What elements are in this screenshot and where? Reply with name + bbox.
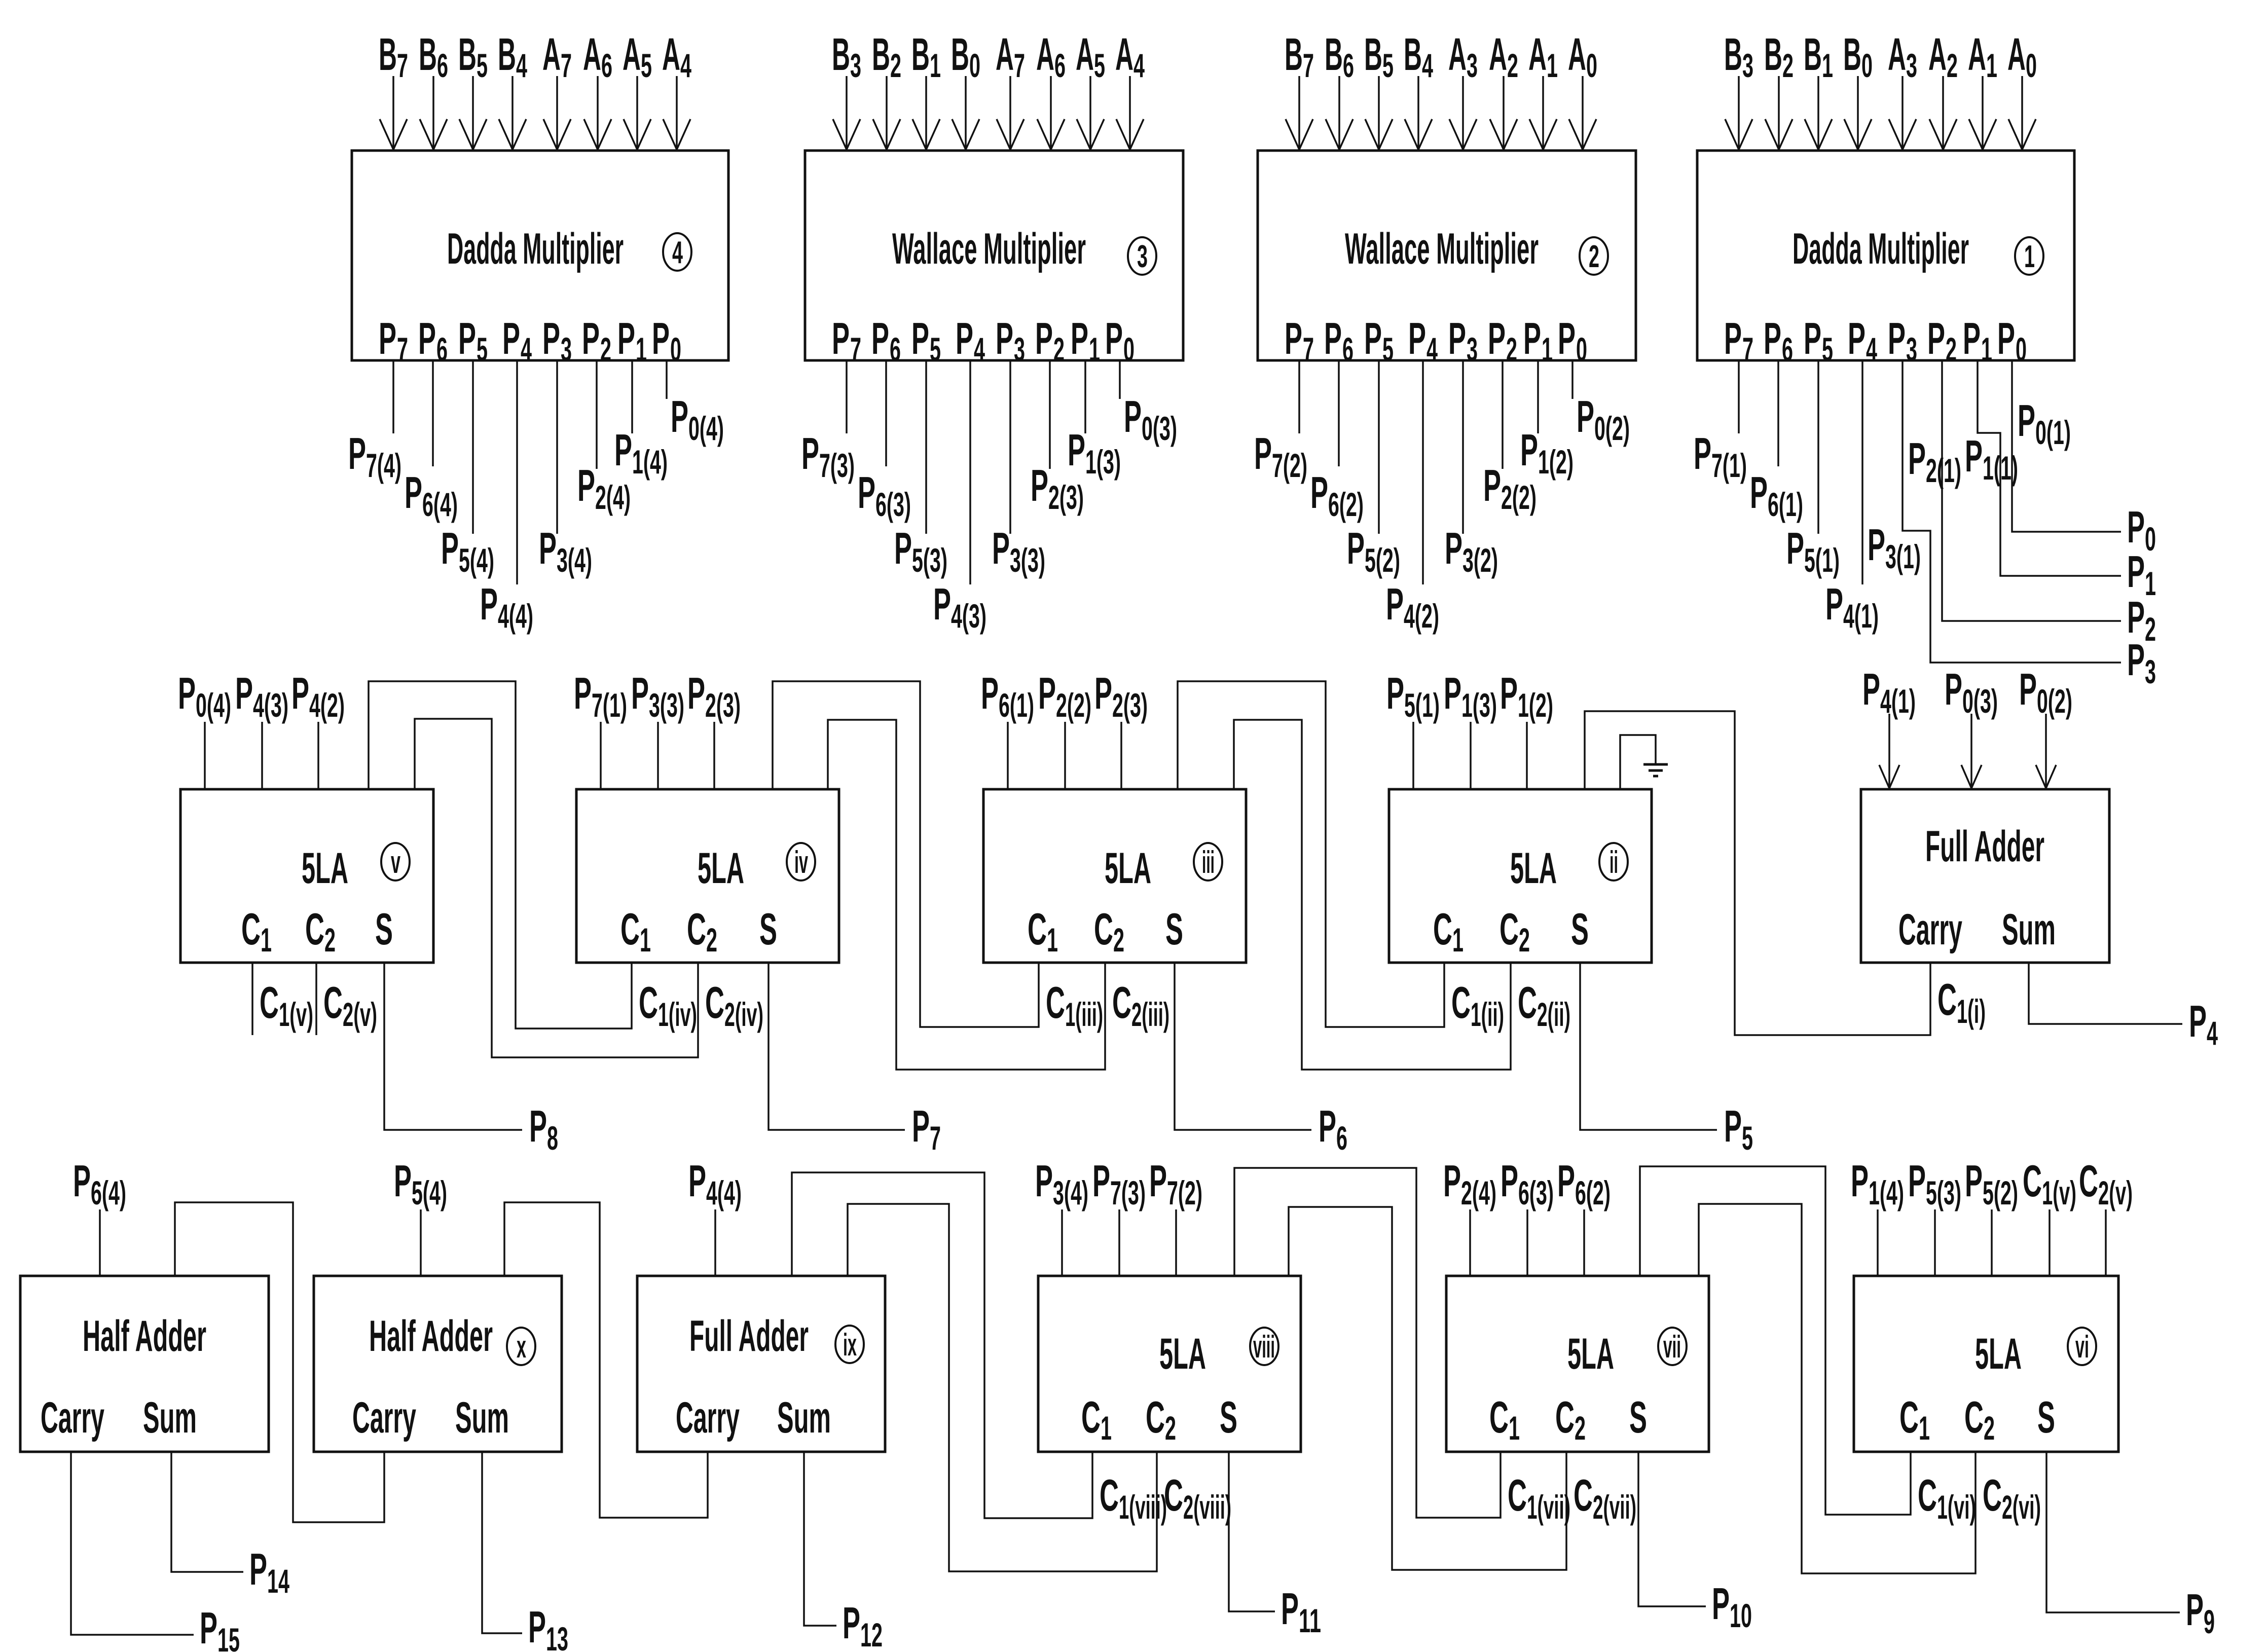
input label P3(3) of 5LA iv (631, 668, 684, 724)
svg-text:P: P (458, 313, 476, 363)
svg-text:P: P (992, 523, 1010, 573)
svg-text:1: 1 (1822, 47, 1833, 84)
svg-text:0: 0 (2026, 47, 2037, 84)
svg-text:P: P (858, 467, 875, 518)
net label P7(2) of U2 (1254, 428, 1307, 484)
svg-text:vii: vii (1663, 1330, 1681, 1365)
svg-text:P: P (542, 313, 560, 363)
svg-text:P: P (1945, 664, 1962, 714)
wire output P0(2) stub of U2 (1571, 360, 1574, 399)
svg-text:2(vi): 2(vi) (2002, 1488, 2041, 1526)
circled numeral 4 of U4 (663, 233, 691, 271)
svg-text:1(ii): 1(ii) (1471, 996, 1504, 1033)
svg-text:P: P (1888, 313, 1906, 363)
svg-text:C: C (1081, 1392, 1101, 1442)
wire input B7 arrow into U4 (380, 76, 407, 150)
svg-text:C: C (305, 904, 324, 954)
input label B6 of U2 (1325, 29, 1354, 84)
svg-text:P: P (1124, 391, 1142, 442)
svg-text:C: C (1489, 1392, 1509, 1442)
net label P7(3) of U3 (801, 428, 855, 484)
input label B3 of U1 (1724, 29, 1753, 84)
svg-text:P: P (1868, 520, 1885, 570)
svg-text:3(4): 3(4) (557, 541, 592, 579)
product output label P14 (249, 1544, 289, 1600)
pin label C1 of 5LA vi (1899, 1392, 1930, 1447)
svg-text:1: 1 (1981, 331, 1992, 368)
svg-text:C: C (705, 977, 724, 1027)
wire output P5(1) stub of U1 (1817, 360, 1819, 534)
input label P6(2) of 5LA vii (1557, 1156, 1611, 1212)
svg-text:B: B (1764, 29, 1782, 80)
svg-text:13: 13 (546, 1620, 568, 1652)
svg-text:P: P (235, 668, 253, 718)
svg-text:3: 3 (1906, 47, 1917, 84)
wire output P6(3) stub of U3 (885, 360, 887, 466)
svg-text:5LA: 5LA (1105, 844, 1151, 893)
svg-text:1: 1 (1047, 921, 1058, 959)
circled numeral iii of 5LA iii (1194, 843, 1222, 880)
svg-text:A: A (996, 29, 1014, 80)
wire input P3(3) stub into 5LA iv (657, 722, 659, 789)
svg-text:5: 5 (641, 47, 652, 84)
svg-text:1: 1 (1509, 1409, 1520, 1447)
pin label P2 of U2 (1488, 313, 1517, 368)
product output label P4 (2189, 996, 2218, 1052)
pin label C1 of 5LA iv (620, 904, 651, 959)
net label P3(4) of U4 (539, 523, 592, 579)
svg-text:6(1): 6(1) (999, 686, 1034, 724)
svg-text:iii: iii (1202, 845, 1215, 880)
wire input B3 arrow into U3 (833, 76, 860, 150)
svg-text:P: P (1149, 1156, 1167, 1206)
product output label P1 (2127, 546, 2156, 602)
input label A4 of U3 (1115, 29, 1145, 84)
svg-text:P: P (996, 313, 1013, 363)
input label P3(4) of 5LA viii (1035, 1156, 1088, 1212)
input label A0 of U1 (2007, 29, 2037, 84)
pin label Sum of U_i (2002, 905, 2056, 954)
pin label C2 of 5LA v (305, 904, 336, 959)
wire output P6(4) stub of U4 (432, 360, 434, 466)
net label P7(1) of U1 (1694, 428, 1747, 484)
wire output P5(2) stub of U2 (1378, 360, 1380, 534)
net label P2(4) of U4 (577, 460, 631, 516)
wire input P3(4) stub into 5LA viii (1061, 1209, 1063, 1276)
input label P5(1) of 5LA ii (1386, 668, 1440, 724)
svg-text:C: C (639, 977, 658, 1027)
svg-text:P: P (1310, 467, 1328, 518)
svg-text:P: P (2186, 1585, 2204, 1635)
svg-text:6: 6 (1336, 1119, 1347, 1157)
wire input C1(v) stub into 5LA vi (2048, 1209, 2051, 1276)
svg-text:C: C (1146, 1392, 1165, 1442)
svg-text:P: P (894, 523, 912, 573)
svg-text:1(3): 1(3) (1085, 443, 1121, 481)
svg-text:0: 0 (1861, 47, 1873, 84)
pin label P5 of U3 (911, 313, 941, 368)
input label P6(1) of 5LA iii (981, 668, 1034, 724)
input label P5(4) of half adder U_x (394, 1156, 447, 1212)
svg-text:P: P (1038, 668, 1056, 718)
net label C1(iii) (1046, 977, 1103, 1033)
wire input P6(4) stub into half adder U_xi (99, 1209, 101, 1276)
svg-text:P: P (574, 668, 592, 718)
svg-text:7: 7 (930, 1119, 941, 1157)
svg-text:P: P (577, 460, 595, 510)
product output label P12 (843, 1598, 883, 1652)
svg-text:3: 3 (2145, 653, 2156, 690)
net label P4(3) of U3 (933, 579, 986, 635)
pin label P1 of U2 (1523, 313, 1553, 368)
svg-text:P: P (1105, 313, 1123, 363)
svg-text:0: 0 (2016, 331, 2027, 368)
pin label P1 of U3 (1071, 313, 1100, 368)
pin label P5 of U1 (1804, 313, 1833, 368)
wire P1(1) route from U1 pin P1 to product output P1 (1978, 360, 2121, 576)
svg-text:P: P (2189, 996, 2207, 1046)
svg-text:B: B (379, 29, 397, 80)
svg-text:P: P (1908, 1156, 1926, 1206)
svg-text:P: P (2127, 502, 2145, 552)
svg-text:2: 2 (1507, 47, 1518, 84)
svg-text:1(4): 1(4) (632, 443, 668, 481)
svg-text:P: P (871, 313, 889, 363)
svg-text:P: P (631, 668, 649, 718)
svg-text:6(2): 6(2) (1328, 486, 1364, 523)
input label A1 of U1 (1968, 29, 1997, 84)
svg-text:0: 0 (969, 47, 980, 84)
svg-text:P: P (528, 1602, 546, 1652)
svg-text:ix: ix (843, 1328, 857, 1363)
svg-text:3: 3 (561, 331, 572, 368)
wire input P0(3) arrow into full adder U_i (1961, 714, 1982, 788)
svg-text:P: P (1500, 668, 1518, 718)
svg-text:A: A (1076, 29, 1094, 80)
svg-text:x: x (517, 1330, 526, 1365)
svg-text:4(3): 4(3) (951, 597, 986, 635)
net label P5(1) of U1 (1786, 523, 1840, 579)
svg-text:2: 2 (890, 47, 901, 84)
svg-text:3: 3 (850, 47, 861, 84)
svg-text:4(4): 4(4) (498, 597, 533, 635)
wire P3(1) route from U1 pin P3 to product output P3 (1903, 360, 2121, 663)
wire output P7(4) stub of U4 (392, 360, 394, 433)
input label B4 of U4 (498, 29, 527, 84)
circled numeral x of U_x (507, 1328, 535, 1365)
svg-text:P: P (1520, 425, 1538, 475)
wire output P2(2) stub of U2 (1502, 360, 1504, 469)
svg-text:P: P (291, 668, 309, 718)
wire C1(i) from U_i Carry to 5LA ii input (1585, 711, 1930, 1035)
wire S of 5LA ii to product output P5 (1580, 963, 1717, 1130)
pin label P3 of U2 (1448, 313, 1478, 368)
wire input B6 arrow into U4 (420, 76, 447, 150)
svg-text:7: 7 (397, 331, 408, 368)
pin label P3 of U3 (996, 313, 1025, 368)
svg-text:1(2): 1(2) (1538, 443, 1574, 481)
svg-text:C: C (241, 904, 261, 954)
svg-text:7(2): 7(2) (1272, 447, 1307, 484)
svg-text:A: A (1115, 29, 1133, 80)
product output label P15 (200, 1603, 240, 1652)
svg-text:6(1): 6(1) (1768, 486, 1803, 523)
svg-text:2: 2 (1519, 921, 1530, 959)
pin label C2 of 5LA iv (687, 904, 717, 959)
svg-text:1(3): 1(3) (1461, 686, 1497, 724)
net label C1(ii) (1451, 977, 1504, 1033)
svg-text:S: S (759, 904, 777, 954)
input label B0 of U3 (951, 29, 980, 84)
svg-text:Dadda Multiplier: Dadda Multiplier (1793, 225, 1969, 273)
wire output P5(3) stub of U3 (925, 360, 927, 534)
svg-text:2: 2 (1575, 1409, 1586, 1447)
wire input A3 arrow into U2 (1449, 76, 1477, 150)
wire input P4(4) stub into full adder U_ix (714, 1209, 716, 1276)
svg-text:7: 7 (1303, 331, 1314, 368)
svg-text:0(3): 0(3) (1142, 410, 1177, 447)
svg-text:6: 6 (1054, 47, 1066, 84)
svg-text:6: 6 (890, 331, 901, 368)
svg-text:5LA: 5LA (698, 844, 744, 893)
svg-text:2: 2 (1053, 331, 1065, 368)
svg-text:P: P (1724, 313, 1742, 363)
svg-text:P: P (200, 1603, 217, 1652)
svg-text:3: 3 (1467, 331, 1478, 368)
svg-text:Full Adder: Full Adder (689, 1312, 809, 1361)
net label P0(1) (2018, 395, 2071, 451)
wire input P4(3) stub into 5LA v (261, 722, 263, 789)
wire output C1(v) stub of 5LA v (251, 963, 253, 1035)
net label P1(1) (1965, 431, 2018, 487)
pin label P3 of U4 (542, 313, 572, 368)
svg-text:5: 5 (477, 47, 488, 84)
wire C1(ii) from 5LA ii C1 to 5LA iii input (1178, 681, 1444, 1027)
wire output C2(v) stub of 5LA v (315, 963, 317, 1035)
wire input A4 arrow into U4 (663, 76, 690, 150)
pin label C1 of 5LA ii (1433, 904, 1464, 959)
svg-text:P: P (1965, 431, 1983, 481)
svg-text:5(1): 5(1) (1804, 541, 1840, 579)
svg-text:2(2): 2(2) (1501, 479, 1537, 516)
svg-text:0(4): 0(4) (688, 410, 724, 447)
svg-text:P: P (418, 313, 436, 363)
input label B1 of U3 (911, 29, 941, 84)
svg-text:C: C (1918, 1470, 1937, 1520)
svg-text:P: P (2127, 546, 2145, 597)
pin label S of 5LA ii (1571, 904, 1589, 954)
pin label S of 5LA iv (759, 904, 777, 954)
net label P5(3) of U3 (894, 523, 947, 579)
svg-text:P: P (1577, 391, 1594, 442)
net label P3(2) of U2 (1445, 523, 1498, 579)
svg-text:P: P (1031, 460, 1048, 510)
pin label S of 5LA vii (1629, 1392, 1647, 1442)
svg-text:P: P (1764, 313, 1781, 363)
net label C2(viii) (1164, 1470, 1231, 1526)
svg-text:P: P (1444, 668, 1461, 718)
svg-text:P: P (1319, 1101, 1336, 1151)
compressor block 5LA iv (5-input adder) (576, 789, 839, 963)
wire Sum of U_xi to product output P14 (171, 1452, 243, 1572)
svg-text:C: C (1899, 1392, 1919, 1442)
pin label P4 of U2 (1408, 313, 1438, 368)
product output label P3 (2127, 635, 2156, 690)
svg-text:2(v): 2(v) (2098, 1174, 2133, 1212)
svg-text:P: P (1558, 313, 1576, 363)
svg-text:Sum: Sum (455, 1393, 509, 1442)
net label P4(2) of U2 (1386, 579, 1439, 635)
svg-text:P: P (1035, 1156, 1053, 1206)
svg-text:6(4): 6(4) (422, 486, 458, 523)
svg-text:C: C (1451, 977, 1471, 1027)
svg-text:1: 1 (930, 47, 941, 84)
wire output P1(2) stub of U2 (1537, 360, 1539, 433)
svg-text:1(4): 1(4) (1869, 1174, 1904, 1212)
svg-text:P: P (912, 1101, 930, 1151)
svg-text:3(4): 3(4) (1053, 1174, 1088, 1212)
net label P6(4) of U4 (405, 467, 458, 523)
net label P2(3) of U3 (1031, 460, 1084, 516)
pin label Carry of U_x (352, 1393, 416, 1442)
pin label P2 of U1 (1927, 313, 1957, 368)
input label B6 of U4 (419, 29, 448, 84)
svg-text:Half Adder: Half Adder (83, 1312, 206, 1361)
svg-text:2(iii): 2(iii) (1131, 996, 1169, 1033)
circled numeral ii of 5LA ii (1599, 843, 1628, 880)
svg-text:A: A (662, 29, 680, 80)
svg-text:P: P (1965, 1156, 1983, 1206)
full adder block U_i (1861, 789, 2109, 963)
svg-text:0(2): 0(2) (2037, 682, 2072, 720)
wire input A1 arrow into U2 (1529, 76, 1557, 150)
svg-text:Wallace Multiplier: Wallace Multiplier (892, 225, 1086, 273)
input label A6 of U4 (583, 29, 612, 84)
input label A5 of U3 (1076, 29, 1105, 84)
pin label P2 of U4 (582, 313, 611, 368)
svg-text:5: 5 (1382, 47, 1394, 84)
wire S of 5LA vii to product output P10 (1638, 1452, 1706, 1606)
svg-text:P: P (394, 1156, 412, 1206)
input label B5 of U4 (458, 29, 488, 84)
pin label Sum of U_x (455, 1393, 509, 1442)
wire input B1 arrow into U1 (1805, 76, 1832, 150)
multiplier block U2: Wallace Multiplier 2 (1258, 151, 1636, 360)
product output label P2 (2127, 592, 2156, 648)
wire input P7(3) stub into 5LA viii (1118, 1209, 1120, 1276)
svg-text:2: 2 (706, 921, 717, 959)
wire Sum of U_x to product output P13 (482, 1452, 522, 1633)
wire Carry of U_x to half adder U_xi input (175, 1202, 384, 1522)
circled numeral vii of 5LA vii (1658, 1328, 1687, 1365)
svg-text:P: P (1927, 313, 1945, 363)
wire input B0 arrow into U1 (1844, 76, 1872, 150)
wire C2(vii) from 5LA vii C2 to 5LA viii input (1289, 1207, 1566, 1570)
svg-text:A: A (1489, 29, 1507, 80)
svg-text:Carry: Carry (352, 1393, 416, 1442)
svg-text:1: 1 (261, 921, 272, 959)
wire S of 5LA vi to product output P9 (2046, 1452, 2180, 1612)
wire input A2 arrow into U1 (1929, 76, 1957, 150)
svg-text:2(ii): 2(ii) (1537, 996, 1570, 1033)
svg-text:5: 5 (1742, 1119, 1753, 1157)
multiplier block U3: Wallace Multiplier 3 (805, 151, 1183, 360)
pin label P4 of U1 (1848, 313, 1877, 368)
svg-text:1: 1 (640, 921, 651, 959)
svg-text:C: C (1499, 904, 1519, 954)
svg-text:A: A (1528, 29, 1547, 80)
wire input P4(2) stub into 5LA v (317, 722, 319, 789)
product output label P5 (1724, 1101, 1753, 1157)
wire input A4 arrow into U3 (1116, 76, 1144, 150)
input label C1(v) of 5LA vi (2023, 1156, 2076, 1212)
svg-text:6(4): 6(4) (91, 1174, 126, 1212)
svg-text:P: P (441, 523, 459, 573)
svg-text:6(2): 6(2) (1575, 1174, 1611, 1212)
input label P5(2) of 5LA vi (1965, 1156, 2018, 1212)
wire input P5(2) stub into 5LA vi (1991, 1209, 1993, 1276)
wire S of 5LA v to product output P8 (384, 963, 522, 1130)
pin label C2 of 5LA iii (1094, 904, 1124, 959)
svg-text:3(2): 3(2) (1462, 541, 1498, 579)
svg-text:3(3): 3(3) (1010, 541, 1045, 579)
input label P0(3) of full adder U_i (1945, 664, 1998, 720)
svg-text:2: 2 (1506, 331, 1517, 368)
svg-text:2: 2 (1984, 1409, 1995, 1447)
wire input B1 arrow into U3 (912, 76, 940, 150)
pin label Sum of U_xi (143, 1393, 197, 1442)
circled numeral v of 5LA v (381, 843, 410, 880)
circled numeral 1 of U1 (2015, 237, 2043, 275)
input label B5 of U2 (1364, 29, 1394, 84)
svg-text:Sum: Sum (143, 1393, 197, 1442)
circled numeral vi of 5LA vi (2068, 1328, 2096, 1365)
svg-text:v: v (391, 845, 400, 880)
svg-text:1: 1 (1919, 1409, 1930, 1447)
pin label C1 of 5LA v (241, 904, 272, 959)
input label P5(3) of 5LA vi (1908, 1156, 1961, 1212)
wire output P4(3) stub of U3 (969, 360, 971, 584)
svg-text:P: P (1254, 428, 1272, 479)
half adder block U_x (314, 1276, 562, 1452)
wire C1(iv) from 5LA iv C1 to 5LA v input (369, 681, 632, 1029)
input label P2(2) of 5LA iii (1038, 668, 1091, 724)
input label A3 of U2 (1448, 29, 1478, 84)
pin label P5 of U4 (458, 313, 488, 368)
svg-text:C: C (1100, 1470, 1119, 1520)
svg-text:3: 3 (1906, 331, 1917, 368)
svg-text:7: 7 (561, 47, 572, 84)
svg-text:7(1): 7(1) (592, 686, 627, 724)
net label P0(4) of U4 (671, 391, 724, 447)
svg-text:5LA: 5LA (1975, 1330, 2022, 1378)
svg-text:7(1): 7(1) (1711, 447, 1747, 484)
wire output P1(4) stub of U4 (631, 360, 633, 433)
wire input A6 arrow into U3 (1037, 76, 1065, 150)
svg-text:P: P (1443, 1156, 1461, 1206)
svg-text:5LA: 5LA (1159, 1330, 1206, 1378)
svg-text:0(3): 0(3) (1962, 682, 1998, 720)
svg-text:P: P (671, 391, 688, 442)
svg-text:P: P (1445, 523, 1462, 573)
wire ground connection to 5LA ii input (1620, 735, 1656, 789)
wire C2(viii) from 5LA viii C2 to full adder U_ix input (848, 1204, 1157, 1571)
wire input B7 arrow into U2 (1286, 76, 1313, 150)
svg-text:0(2): 0(2) (1594, 410, 1630, 447)
wire input B0 arrow into U3 (952, 76, 979, 150)
svg-text:P: P (1851, 1156, 1869, 1206)
wire C2(iv) from 5LA iv C2 to 5LA v input (415, 719, 698, 1057)
